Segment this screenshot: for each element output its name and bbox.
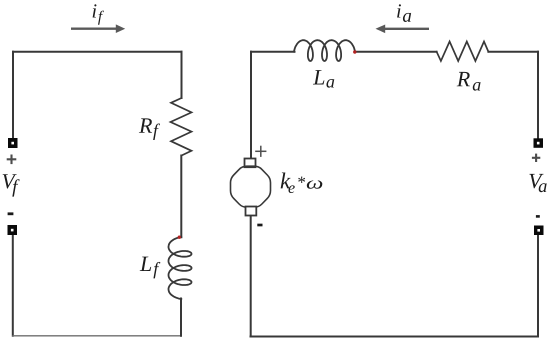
current arrow if (71, 24, 125, 33)
wire: right loop left upper (250, 52, 252, 159)
minus sign motor (257, 224, 262, 227)
resistor Ra zigzag (437, 42, 489, 62)
wire: right loop top middle (355, 51, 437, 53)
wire: right loop left lower (250, 216, 252, 337)
wire: right loop top right (488, 51, 538, 53)
node: red junction dot at La right end (353, 50, 356, 53)
plus sign Va (532, 154, 540, 162)
label Ra (457, 72, 470, 86)
inductor Lf coil (169, 237, 192, 299)
terminal square Vf - (8, 225, 18, 235)
wire: left loop right lower (180, 299, 182, 336)
label ke* (281, 172, 291, 188)
wire: left loop left lower (12, 235, 14, 336)
wire: left loop right middle (180, 156, 182, 238)
current arrow ia (376, 25, 430, 34)
label omega of ke*w (307, 180, 322, 188)
motor U1 bottom terminal square (246, 207, 257, 216)
minus sign Va (536, 215, 540, 218)
label Va (529, 174, 543, 188)
wire: left loop top (13, 51, 182, 53)
label if (93, 4, 97, 17)
motor U1 top terminal square (245, 159, 256, 168)
label La (313, 70, 324, 84)
wire: right loop right upper (537, 52, 539, 139)
wire: right loop right lower (537, 235, 539, 337)
wire: left loop right upper (181, 52, 183, 98)
motor U1 body octagon (231, 166, 271, 207)
label Vf (3, 174, 17, 188)
wire: left loop left upper (12, 52, 14, 139)
label ia (397, 4, 401, 17)
wire: right loop bottom (251, 336, 539, 338)
node: red junction dot at Lf top (178, 236, 181, 239)
minus sign Vf (8, 212, 14, 215)
inductor La coil (294, 40, 355, 61)
terminal square Va - (534, 226, 544, 236)
terminal square Va + (534, 138, 544, 148)
plus sign motor (255, 146, 266, 157)
wire: right loop top left (251, 51, 295, 53)
wire: left loop bottom (13, 335, 181, 337)
resistor Rf zigzag (171, 98, 192, 156)
plus sign Vf (7, 155, 17, 165)
terminal square Vf + (8, 138, 18, 148)
label Lf (140, 257, 151, 271)
label Rf (139, 118, 152, 132)
